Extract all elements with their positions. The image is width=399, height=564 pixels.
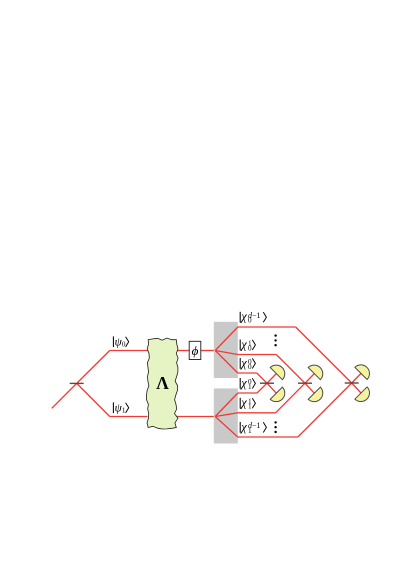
svg-text:0: 0 xyxy=(248,317,252,325)
wire bottom arm channel to bottom demux fan point xyxy=(176,416,215,418)
wire chi1(1) diagonal to BS3 xyxy=(276,383,305,413)
wire chi0(0) horizontal xyxy=(238,372,257,374)
svg-text:χ: χ xyxy=(240,356,247,370)
node vdots top xyxy=(274,334,276,346)
demultiplexer top (gray box) xyxy=(214,322,238,378)
wire BS3 to detector D3 xyxy=(305,374,314,384)
svg-text:1: 1 xyxy=(248,403,252,411)
detector D3 xyxy=(308,365,323,380)
wire top arm channel to phase box xyxy=(176,350,189,352)
wire chi1(1) horizontal xyxy=(238,412,276,414)
wire chi0(0) diagonal to BS2 xyxy=(257,373,267,383)
label ket chi1 d-1 xyxy=(240,420,266,435)
svg-text:0: 0 xyxy=(248,363,252,371)
wire chi1(d-1) diagonal to BS4 xyxy=(298,383,352,437)
wire chi0(1) horizontal xyxy=(238,354,276,356)
wire chi1(0) diagonal to BS2 xyxy=(257,383,267,393)
detector D6 xyxy=(355,387,370,402)
label ket psi0 xyxy=(113,336,128,348)
svg-text:0: 0 xyxy=(122,341,126,349)
wire chi1(d-1) horizontal xyxy=(238,436,298,438)
svg-text:Λ: Λ xyxy=(156,373,169,393)
label ket chi0 0 xyxy=(240,356,255,371)
label ket chi1 1 xyxy=(240,396,255,411)
wire top fan to chi0(0) xyxy=(215,351,238,374)
wire top fan to chi0(1) xyxy=(215,351,238,355)
demultiplexer bottom (gray box) xyxy=(214,388,238,443)
wire chi0(1) diagonal to BS3 xyxy=(276,355,305,384)
wire BS4 to detector D6 xyxy=(352,383,361,393)
beamsplitter BS4 plate xyxy=(345,382,359,384)
svg-text:χ: χ xyxy=(240,396,247,410)
svg-text:χ: χ xyxy=(240,420,247,434)
svg-text:1: 1 xyxy=(122,407,126,415)
wire bottom fan to chi1(1) xyxy=(215,413,238,417)
wire BS4 to detector D5 xyxy=(352,373,361,383)
svg-text:χ: χ xyxy=(240,310,247,324)
svg-text:χ: χ xyxy=(240,376,247,390)
svg-text:0: 0 xyxy=(248,344,252,352)
wire chi1(0) horizontal xyxy=(238,392,257,394)
detector D4 xyxy=(308,387,323,402)
svg-text:ϕ: ϕ xyxy=(192,343,199,358)
wire top arm horizontal into channel xyxy=(110,350,148,352)
wire top fan to chi0(d-1) xyxy=(215,327,238,351)
node vdots bottom xyxy=(274,421,276,433)
wire chi0(d-1) horizontal xyxy=(238,326,296,328)
svg-text:χ: χ xyxy=(240,337,247,351)
channel box Lambda (torn wavy edges) xyxy=(147,338,179,429)
detector D5 xyxy=(355,365,370,380)
wire bottom arm horizontal into channel xyxy=(110,416,148,418)
wire BS1 reflected to bottom arm bend xyxy=(77,383,110,416)
wire BS1 transmitted to top arm bend xyxy=(77,351,110,384)
beamsplitter BS1 plate xyxy=(70,382,84,384)
wire phase box to top demux fan point xyxy=(201,350,215,352)
detector D2 xyxy=(270,387,285,402)
label ket psi1 xyxy=(113,402,128,414)
label ket chi1 0 xyxy=(240,376,255,391)
phase shifter box xyxy=(189,341,201,359)
wire chi0(d-1) diagonal to BS4 xyxy=(296,327,352,383)
beamsplitter BS3 plate xyxy=(298,382,312,384)
label ket chi0 1 xyxy=(240,337,255,352)
detector D1 xyxy=(270,365,285,380)
wire bottom fan to chi1(0) xyxy=(215,393,238,417)
wire BS2 to detector D2 xyxy=(267,383,276,393)
wire BS2 to detector D1 xyxy=(267,374,276,384)
wire bottom fan to chi1(d-1) xyxy=(215,417,238,438)
svg-text:1: 1 xyxy=(248,383,252,391)
svg-text:1: 1 xyxy=(248,427,252,435)
beamsplitter BS2 plate xyxy=(260,382,274,384)
label ket chi0 d-1 xyxy=(240,310,266,325)
wire BS3 to detector D4 xyxy=(305,383,314,393)
wire input beam to BS1 xyxy=(52,383,77,408)
